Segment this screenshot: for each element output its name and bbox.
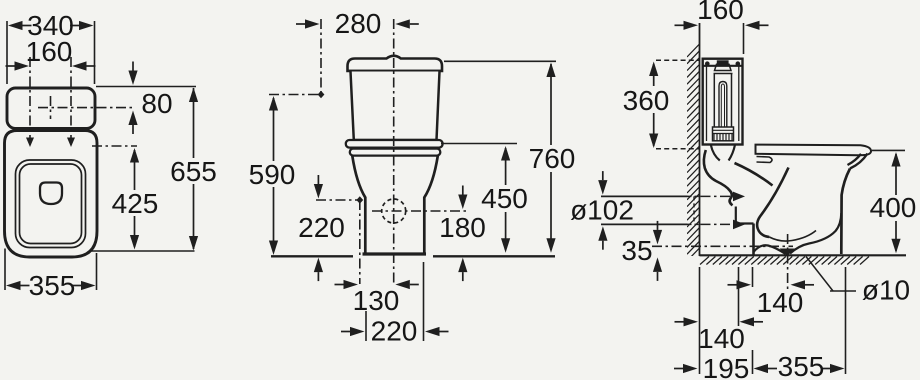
top view: seat outer ring: [16, 160, 86, 248]
side view: tank inner walls: [706, 66, 708, 141]
top view: seat inner ring: [20, 164, 82, 244]
dim 35 arrows: [653, 230, 662, 245]
dim 400 reference line: [872, 149, 905, 151]
svg-text:220: 220: [298, 212, 345, 243]
front view: bowl sides and pedestal: [352, 156, 438, 253]
svg-text:130: 130: [353, 285, 400, 316]
svg-text:760: 760: [529, 143, 576, 174]
front view: deck flange: [346, 140, 443, 148]
top view: cistern tank outline: [7, 88, 95, 129]
wall face line: [699, 23, 701, 256]
front view: cistern body: [351, 72, 440, 141]
dim 355 arrows: [6, 281, 21, 290]
svg-text:80: 80: [141, 88, 172, 119]
wall hatching: [687, 44, 700, 261]
svg-text:655: 655: [170, 156, 217, 187]
ext line 140 inner: [738, 267, 740, 326]
side view: bowl underside to drain: [754, 245, 786, 254]
dim 220 bottom arrows: [350, 327, 365, 336]
inlet pipe upper edge: [601, 195, 688, 197]
front view: pedestal base line: [363, 252, 427, 255]
svg-text:590: 590: [249, 159, 296, 190]
dim 140 upper arrows: [737, 280, 752, 289]
dim 655 line: [193, 88, 195, 158]
svg-text:220: 220: [371, 316, 418, 347]
side view: flush valve cap: [717, 60, 729, 64]
floor line: [700, 254, 907, 256]
dim 760 line: [550, 64, 552, 145]
dim 760 arrows: [546, 63, 555, 78]
side view: seat profile: [756, 145, 872, 156]
dim 280 arrows: [305, 19, 320, 28]
svg-text:ø102: ø102: [570, 195, 634, 226]
front view: main vertical centreline: [393, 19, 395, 285]
side view: bowl inner front slope: [757, 168, 788, 238]
inlet pipe lower edge: [601, 223, 688, 225]
side view: inlet shelf: [735, 163, 773, 186]
svg-text:400: 400: [870, 192, 917, 223]
svg-text:140: 140: [757, 287, 804, 318]
side view: drain gasket triangle: [780, 249, 796, 257]
ext line wall face below floor: [699, 267, 701, 374]
side view: overflow tube: [719, 82, 727, 128]
dim 180 arrows: [458, 195, 467, 210]
svg-text:355: 355: [778, 351, 825, 380]
tank front extension line: [743, 23, 745, 54]
side view: rim hollow under seat left: [757, 157, 773, 163]
dim 425 reference dash-dot: [92, 145, 137, 147]
front view: outlet horizontal centreline: [372, 210, 468, 212]
svg-text:425: 425: [112, 188, 159, 219]
front view: rim band: [350, 149, 441, 156]
dim 590 arrows: [269, 96, 278, 111]
svg-text:160: 160: [697, 0, 744, 25]
side view: flush valve body: [714, 74, 731, 128]
dim 450 arrows: [501, 146, 510, 161]
reference line deck right: [441, 143, 517, 145]
floor hatching: [700, 257, 869, 265]
top view: tank centre cross: [38, 107, 135, 109]
svg-text:360: 360: [623, 85, 670, 116]
dim 425 arrows: [130, 148, 139, 163]
dim 140 lower arrows: [684, 317, 699, 326]
side view: bowl back hook profile: [704, 150, 733, 205]
dim 340 arrows: [8, 21, 23, 30]
dim 220 bottom extension lines: [365, 311, 367, 341]
front view: cistern lid: [348, 56, 443, 71]
top view: seat-hole centreline right with arrowhead: [70, 57, 72, 143]
drain vertical centreline: [787, 234, 789, 291]
dim 80 lower arrow: [128, 111, 137, 126]
dim 360 arrows: [649, 62, 658, 77]
top view: trap water cup: [40, 183, 62, 205]
dim 80 upper arrow: [128, 71, 137, 86]
svg-text:195: 195: [703, 353, 750, 380]
side view: sump right curves: [790, 213, 841, 254]
svg-text:450: 450: [481, 183, 528, 214]
dim ø102 arrows: [598, 180, 607, 195]
side view: tank outline: [703, 59, 743, 145]
svg-text:180: 180: [439, 212, 486, 243]
front view: outlet dashed circle: [382, 199, 406, 223]
side view: lid knobs: [705, 61, 710, 66]
dim 130 arrows: [344, 280, 359, 289]
side view: valve base block: [713, 127, 734, 141]
reference line lid top right: [444, 60, 556, 62]
side view: flush funnel below tank: [711, 145, 735, 161]
side view: trap step outline: [735, 207, 737, 224]
top view: seat-hole centreline left with arrowhead: [29, 57, 31, 143]
svg-text:35: 35: [621, 235, 652, 266]
dim 425 line: [134, 150, 136, 190]
node: bowl-side reference diamond: [316, 199, 360, 201]
dim 590 line: [273, 98, 275, 161]
side view: bowl outer right profile: [841, 169, 850, 255]
svg-text:160: 160: [26, 36, 73, 67]
ext line 355 right: [845, 267, 847, 374]
dim 160 arrows: [15, 61, 30, 70]
front view: floor line: [271, 255, 353, 257]
dim 340 extension lines: [6, 21, 8, 84]
dim 160 arrows: [684, 21, 699, 30]
dim 450 line: [505, 148, 507, 185]
svg-text:355: 355: [29, 270, 76, 301]
side view: rim wedge under seat: [848, 154, 868, 169]
dim 220 left arrows: [314, 184, 323, 199]
dim 355 extension lines: [4, 249, 6, 291]
ext line 195: [752, 267, 754, 287]
label ø10 leader: [806, 257, 833, 292]
top view: bowl body outline: [5, 131, 98, 258]
svg-text:140: 140: [698, 323, 745, 354]
dim 355 side arrows: [754, 364, 769, 373]
dim 655 arrows: [189, 88, 198, 103]
dim 80 reference line (tank top ext): [96, 86, 196, 88]
svg-text:ø10: ø10: [862, 275, 910, 306]
inlet pipe hidden end: [693, 196, 695, 224]
svg-text:280: 280: [335, 8, 382, 39]
dim 400 arrows: [891, 152, 900, 167]
dim 360 line: [653, 64, 655, 86]
outlet height centreline 35: [652, 245, 793, 247]
dim 400 line: [895, 154, 897, 195]
node: tap-hole reference diamond: [269, 94, 321, 96]
dim 195 arrow left: [683, 364, 698, 373]
side view: tank lid line: [703, 65, 743, 67]
bottom reference line: [90, 250, 195, 252]
tank top dashed reference: [656, 59, 700, 61]
tank bottom dashed reference: [656, 148, 700, 150]
